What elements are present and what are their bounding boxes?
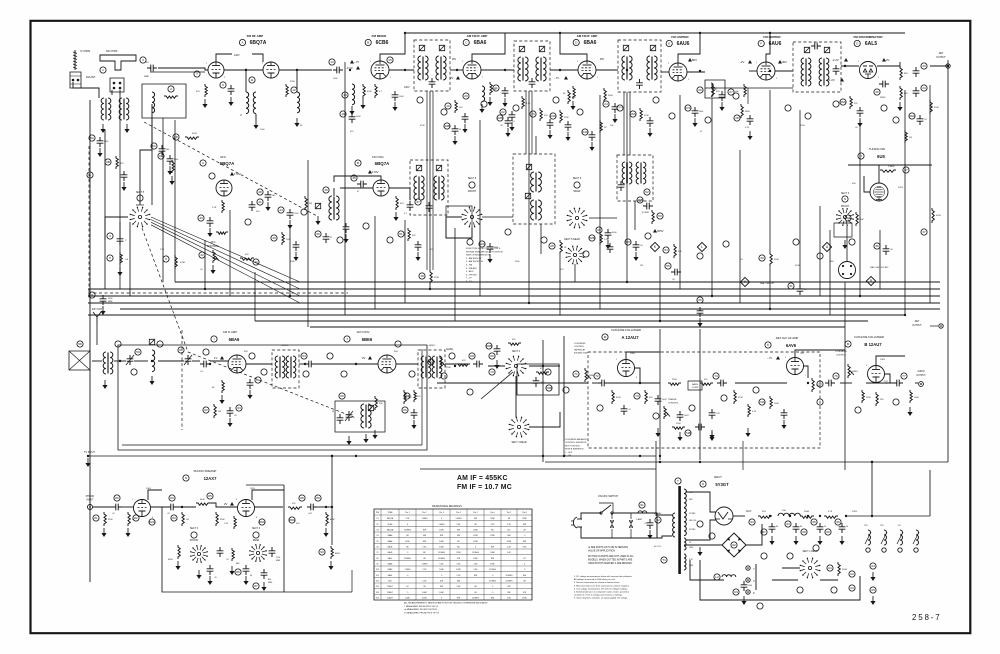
capacitor IF2 bypass 470MMF <box>612 103 619 113</box>
svg-text:800: 800 <box>268 579 271 581</box>
wire det output right bus <box>947 60 949 462</box>
svg-text:100K: 100K <box>290 261 295 263</box>
svg-text:6BA6: 6BA6 <box>229 337 240 342</box>
svg-text:93: 93 <box>750 520 754 524</box>
svg-text:DET: DET <box>939 53 944 55</box>
tube V9 6BA6 AM IF <box>228 355 246 373</box>
ref circles level area <box>489 353 495 359</box>
tube V5 6AU6 limiter 1 <box>669 63 687 81</box>
svg-text:S: S <box>844 197 846 201</box>
resistor tone ladder 3 <box>734 390 736 404</box>
resistor IF1 screen <box>522 96 524 109</box>
svg-text:2. Socket connections are sho: 2. Socket connections are shown as botto… <box>574 581 620 584</box>
svg-text:97: 97 <box>762 530 766 534</box>
svg-text:91: 91 <box>640 503 644 507</box>
svg-text:AUDIO: AUDIO <box>917 370 924 373</box>
coil RF plate choke L4 <box>253 92 256 114</box>
svg-text:4.7K: 4.7K <box>828 511 833 513</box>
svg-text:6. Values beyond a variation,: 6. Values beyond a variation, no signal … <box>574 597 628 600</box>
svg-text:VALUE OR APPLICATION: VALUE OR APPLICATION <box>588 549 615 552</box>
shield box FM RF coil <box>142 84 186 118</box>
svg-text:69B: 69B <box>486 344 492 348</box>
resistor 470K left <box>175 255 177 269</box>
svg-text:Pin 4: Pin 4 <box>456 512 460 514</box>
svg-text:470K: 470K <box>490 564 495 566</box>
svg-text:6 - PHONO: 6 - PHONO <box>466 274 477 276</box>
pilot lamp choke <box>714 574 720 580</box>
svg-text:A4: A4 <box>871 564 875 568</box>
svg-text:100K: 100K <box>914 397 919 399</box>
svg-text:.5: .5 <box>407 592 409 594</box>
svg-text:220K: 220K <box>108 519 113 521</box>
svg-text:100K: 100K <box>286 239 291 241</box>
svg-text:90V: 90V <box>244 351 248 353</box>
svg-text:89: 89 <box>316 496 320 500</box>
extra scattered refs power <box>697 521 703 527</box>
extra scattered refs am row <box>115 341 121 347</box>
resistor mid under afc <box>305 196 307 210</box>
wire RF out to mixer cluster <box>279 69 332 71</box>
svg-text:81: 81 <box>94 516 98 520</box>
capacitor limiter bypass <box>747 115 754 125</box>
svg-text:2V: 2V <box>886 58 890 62</box>
svg-text:3. Measured values are from s: 3. Measured values are from socket pin t… <box>574 584 630 587</box>
svg-text:SET POSITION: SET POSITION <box>565 445 580 447</box>
svg-text:-2V: -2V <box>740 60 744 64</box>
svg-text:12AU7: 12AU7 <box>387 591 393 594</box>
capacitor AM coupling <box>200 361 210 368</box>
resistor 47K conv out <box>414 390 416 402</box>
tube V13A 12AX7 phono 1 <box>134 500 151 517</box>
capacitor phono2 eq 800MMF <box>261 569 268 579</box>
capacitor 1.0 mid <box>505 117 512 127</box>
svg-text:80: 80 <box>115 496 119 500</box>
extra parts 6AL5 area <box>850 96 852 109</box>
svg-text:48: 48 <box>258 190 262 194</box>
svg-text:20: 20 <box>464 94 468 98</box>
svg-text:C9: C9 <box>734 590 738 594</box>
svg-text:15 MEG: 15 MEG <box>472 552 479 554</box>
svg-text:47Ω: 47Ω <box>762 511 766 513</box>
svg-text:250Ω: 250Ω <box>842 569 847 571</box>
svg-text:.5: .5 <box>492 592 494 594</box>
extra second-row parts C <box>633 241 640 251</box>
svg-text:49: 49 <box>272 236 276 240</box>
AM IF transformer can <box>272 350 299 388</box>
svg-text:45: 45 <box>459 129 461 131</box>
svg-text:11: 11 <box>250 78 253 82</box>
svg-text:Pin 3: Pin 3 <box>439 512 443 514</box>
power transformer core bar <box>678 486 681 574</box>
coils in wafer box <box>622 162 625 184</box>
svg-text:100K: 100K <box>473 558 478 560</box>
svg-text:55: 55 <box>666 264 670 268</box>
svg-text:5 - AUX: 5 - AUX <box>466 270 474 273</box>
svg-text:REAR: REAR <box>574 190 581 193</box>
svg-text:5. Nominal tolerance on compo: 5. Nominal tolerance on component values… <box>574 591 630 594</box>
svg-text:5000: 5000 <box>699 111 703 113</box>
resistor right of phono <box>331 546 333 559</box>
svg-text:190V: 190V <box>880 359 886 361</box>
svg-text:1M: 1M <box>909 137 912 139</box>
svg-text:15 MEG: 15 MEG <box>489 581 496 583</box>
svg-text:150K: 150K <box>676 423 681 425</box>
svg-text:.0047: .0047 <box>684 415 689 417</box>
svg-text:82K: 82K <box>904 73 908 75</box>
svg-text:0: 0 <box>407 524 408 526</box>
svg-text:DET AVC AF AMP: DET AVC AF AMP <box>776 336 799 340</box>
ref circle RF amp r2 <box>249 77 255 83</box>
extra audio box parts <box>621 405 628 415</box>
svg-text:100K: 100K <box>405 598 410 600</box>
svg-text:470K: 470K <box>934 107 939 109</box>
ratio detector coupling box <box>705 80 725 98</box>
AM osc coil box <box>335 401 385 432</box>
capacitor limiter1 <box>719 91 726 101</box>
svg-text:12AX7: 12AX7 <box>387 597 393 600</box>
svg-text:19B: 19B <box>444 124 450 128</box>
svg-text:62: 62 <box>204 408 208 412</box>
svg-text:Pin 7: Pin 7 <box>507 512 511 514</box>
resistor right col 470K <box>932 208 934 223</box>
voltage arrows limiter2 <box>748 60 752 64</box>
svg-text:470K: 470K <box>473 535 478 537</box>
svg-text:220V: 220V <box>898 187 904 189</box>
wire bus line 7 <box>255 320 868 322</box>
capacitor level out <box>473 361 483 368</box>
wire eye column <box>819 206 821 296</box>
svg-text:37: 37 <box>922 230 926 234</box>
svg-text:0V: 0V <box>362 356 366 360</box>
svg-text:FRONT: FRONT <box>841 206 850 208</box>
bridge diode arrows <box>726 537 741 553</box>
svg-text:AM IF = 455KC: AM IF = 455KC <box>457 475 508 482</box>
svg-text:PHONO PREAMP: PHONO PREAMP <box>194 469 217 473</box>
svg-text:470K: 470K <box>420 125 425 127</box>
tube V10 6BE6 AM converter <box>378 355 396 373</box>
tube V11A 12AU7 cathode follower <box>618 360 635 377</box>
svg-text:FM LIMITER: FM LIMITER <box>763 35 781 39</box>
resistor conv screen <box>404 390 406 404</box>
wire phono bottom rail <box>284 591 352 593</box>
svg-text:95V: 95V <box>600 59 605 61</box>
svg-text:CONTROL: CONTROL <box>836 354 847 356</box>
svg-text:WITH B INSERTED:: WITH B INSERTED: <box>565 449 584 451</box>
capacitor tone 4 <box>709 409 716 419</box>
resistor phono 220K <box>104 512 106 526</box>
svg-text:COMP: COMP <box>692 387 699 389</box>
mechanical link line switch <box>481 372 513 399</box>
trimmer caps T6 <box>804 47 809 52</box>
svg-text:60 CYC: 60 CYC <box>654 546 662 548</box>
voltage arrow 170V AFC <box>230 172 234 176</box>
wire sect1 links <box>755 564 757 590</box>
resistor IF2 cathode 68 <box>573 86 575 99</box>
extra parts right det col <box>917 115 924 125</box>
tube V3 6BA6 IF amp 1 <box>463 61 481 79</box>
svg-text:★ SEE PARTS LIST FOR ALTERNATE: ★ SEE PARTS LIST FOR ALTERNATE <box>588 546 628 549</box>
svg-text:117VAC: 117VAC <box>654 512 662 515</box>
svg-text:470K: 470K <box>405 541 410 543</box>
svg-text:61: 61 <box>256 378 260 382</box>
svg-text:6BQ7A: 6BQ7A <box>250 40 267 46</box>
svg-text:.5: .5 <box>407 552 409 554</box>
svg-text:220K: 220K <box>564 117 569 119</box>
svg-text:6CB6: 6CB6 <box>376 40 389 46</box>
svg-text:V3: V3 <box>376 530 378 532</box>
svg-text:SECT 6: SECT 6 <box>573 177 582 180</box>
switch fan-out wires to bus <box>151 217 300 282</box>
svg-text:40: 40 <box>199 216 203 220</box>
capacitor phono in .02 <box>112 504 122 511</box>
extra scattered ref circles audio <box>441 373 447 379</box>
wire audio bottom rails <box>420 468 656 470</box>
resistor discriminator load 1 <box>900 66 902 80</box>
svg-text:24: 24 <box>604 102 608 106</box>
resistor limiter screen 485K <box>741 104 743 118</box>
svg-text:F: F <box>760 42 762 46</box>
svg-text:100K: 100K <box>422 592 427 594</box>
svg-text:L: L <box>701 245 703 249</box>
svg-text:.05: .05 <box>640 245 643 247</box>
svg-text:CONTROL: CONTROL <box>668 402 679 404</box>
wire AM row links <box>92 360 102 362</box>
resistor mixer inj 4.7K <box>375 84 377 98</box>
resistor limiter2 grid 10K <box>744 84 746 97</box>
extra parts right of limiter1 <box>692 107 699 117</box>
svg-text:.05: .05 <box>214 577 217 579</box>
trimmer caps T4 FM IF 2 <box>519 46 524 51</box>
svg-text:CATHODE FOLLOWER: CATHODE FOLLOWER <box>611 328 641 332</box>
svg-text:5000: 5000 <box>494 247 498 249</box>
resistor cf2 out <box>910 390 912 403</box>
svg-text:120V: 120V <box>404 86 410 89</box>
svg-text:3: 3 <box>142 58 144 62</box>
svg-text:AM FM IF AMP: AM FM IF AMP <box>467 34 488 38</box>
capacitor AFC 1 <box>249 201 256 211</box>
svg-text:52C: 52C <box>625 240 631 244</box>
refs power right <box>849 571 855 577</box>
svg-text:99: 99 <box>826 530 830 534</box>
wire audio verticals <box>626 352 660 360</box>
capacitor RF bypass <box>228 85 235 95</box>
svg-text:M: M <box>847 342 850 346</box>
extra parts under IF strip cluster 2 <box>540 108 542 121</box>
svg-text:T1: T1 <box>662 558 666 562</box>
svg-text:-.7V: -.7V <box>354 60 359 64</box>
capacitor inside T5 FM IF 3 <box>636 79 643 89</box>
svg-text:6BQ7A: 6BQ7A <box>387 529 394 532</box>
resistor phono grid <box>128 512 130 526</box>
coil RF output L5 <box>297 92 300 113</box>
resistor AM IF cathode <box>222 380 224 393</box>
capacitor IF1 screen bypass <box>509 111 516 121</box>
svg-text:A5: A5 <box>871 588 875 592</box>
svg-text:6U5: 6U5 <box>388 581 391 583</box>
svg-text:6: 6 <box>636 377 637 379</box>
extra scattered ref circles row1 <box>417 97 423 103</box>
filter cap C90D <box>839 523 846 533</box>
svg-text:47K: 47K <box>400 203 404 205</box>
wire limiter2 links <box>749 70 757 72</box>
svg-text:33: 33 <box>922 64 926 68</box>
svg-text:58: 58 <box>78 342 82 346</box>
svg-text:L2: L2 <box>715 575 719 579</box>
svg-text:86A: 86A <box>259 520 265 524</box>
svg-text:All voltages measured at 1000: All voltages measured at 1000 ohms per v… <box>574 578 615 581</box>
bus junction dots <box>204 288 206 290</box>
svg-text:2: 2 <box>170 87 172 91</box>
resistor AFC 47K <box>240 258 254 260</box>
svg-text:23A: 23A <box>550 114 556 118</box>
trimmer caps T3 FM IF 1 <box>419 45 424 50</box>
svg-text:1M: 1M <box>186 519 189 521</box>
svg-text:3 - FM: 3 - FM <box>466 265 472 267</box>
voltage arrow -7V <box>350 60 354 64</box>
svg-text:† MEASURED FROM PIN 3 OF V2: † MEASURED FROM PIN 3 OF V2 <box>404 605 439 608</box>
svg-text:10K: 10K <box>860 219 864 221</box>
wire coil to RF amp grid <box>158 68 208 70</box>
svg-text:25: 25 <box>550 244 554 248</box>
svg-text:10 MEG: 10 MEG <box>506 581 513 583</box>
svg-text:16: 16 <box>341 112 345 116</box>
wire sect6 front leads <box>446 217 472 238</box>
svg-text:470K: 470K <box>434 277 439 279</box>
svg-text:I: I <box>214 337 215 341</box>
extra top strip horizontals <box>150 71 205 73</box>
capacitor coupling to mixer <box>333 67 343 74</box>
svg-text:OUTPUT: OUTPUT <box>916 375 926 377</box>
svg-text:47K: 47K <box>462 360 466 362</box>
tube V8 6U5 tuning eye <box>870 183 888 201</box>
svg-text:10 MEG: 10 MEG <box>438 558 445 560</box>
capacitor 6AV6 out <box>825 380 835 387</box>
transformer AM antenna <box>103 352 106 374</box>
wire primary leads <box>650 513 672 515</box>
svg-text:66: 66 <box>403 408 407 412</box>
AC plug <box>573 517 577 528</box>
resistor phono out 47K <box>288 507 302 509</box>
svg-text:2.2M: 2.2M <box>604 239 609 241</box>
resistor phono load 1MEG <box>182 512 184 526</box>
svg-text:1 MEG: 1 MEG <box>439 524 445 526</box>
resistor phono 390K <box>216 512 218 526</box>
svg-text:V6: V6 <box>376 547 378 549</box>
svg-text:12AU7: 12AU7 <box>387 585 393 588</box>
svg-text:220K: 220K <box>672 379 677 381</box>
extra scattered ref circles row2 <box>209 173 215 179</box>
svg-text:72: 72 <box>595 374 599 378</box>
svg-text:SECT 3: SECT 3 <box>190 528 199 530</box>
svg-text:42: 42 <box>200 253 204 257</box>
svg-text:TREBLE: TREBLE <box>668 399 677 401</box>
svg-text:92: 92 <box>732 543 736 547</box>
svg-text:22B: 22B <box>497 116 503 120</box>
terminal audio output <box>919 382 924 387</box>
extra parts limiter drop cluster <box>600 120 602 133</box>
capacitor discriminator 1 <box>913 67 920 77</box>
svg-text:2V: 2V <box>450 76 454 80</box>
coil IF1 cathode <box>482 86 485 102</box>
wire audio main line <box>437 382 588 384</box>
connector diamond M <box>740 277 749 286</box>
resistor 250 ohm hum <box>838 562 840 576</box>
labels 6AV6 <box>776 356 780 360</box>
svg-text:1M: 1M <box>218 411 221 413</box>
svg-text:15 MEG: 15 MEG <box>489 569 496 571</box>
svg-text:PHONO: PHONO <box>190 540 199 542</box>
svg-text:1.2K: 1.2K <box>224 523 229 525</box>
svg-text:98: 98 <box>802 530 806 534</box>
svg-text:74B: 74B <box>685 431 691 435</box>
svg-text:68: 68 <box>508 518 510 520</box>
svg-text:68: 68 <box>423 558 425 560</box>
resistor IF2 grid 560K <box>604 88 606 102</box>
extra left tuner parts 2 <box>116 156 118 169</box>
svg-text:V1: V1 <box>376 518 378 520</box>
svg-text:Pin 2: Pin 2 <box>422 512 426 514</box>
svg-text:47K: 47K <box>716 91 720 93</box>
svg-text:68: 68 <box>474 592 476 594</box>
svg-text:V15: V15 <box>376 598 379 600</box>
wire B+ distribution <box>846 515 930 517</box>
AM loop antenna <box>69 351 90 370</box>
wire IF1 links <box>450 69 463 71</box>
dashed gang line FM tuner <box>142 228 356 418</box>
tube V13B 12AX7 phono 2 <box>238 500 255 517</box>
tube V2 FM mixer 6CB6 <box>371 61 389 79</box>
svg-text:AM CONV: AM CONV <box>356 330 369 334</box>
svg-text:0: 0 <box>441 598 442 600</box>
svg-text:2 MEG: 2 MEG <box>888 166 895 168</box>
power transformer 6.3V winding <box>684 554 686 570</box>
svg-text:6BQ7A: 6BQ7A <box>387 517 394 520</box>
svg-text:FM DISCRIMINATOR: FM DISCRIMINATOR <box>853 35 883 39</box>
svg-text:.0047: .0047 <box>662 399 667 401</box>
svg-text:MODELS. WHEN DOTTED IN PARTS: MODELS. WHEN DOTTED IN PARTS ARE <box>588 558 633 561</box>
svg-text:47: 47 <box>416 200 420 204</box>
svg-text:LEVEL: LEVEL <box>446 348 454 351</box>
svg-text:220K: 220K <box>456 552 461 554</box>
svg-text:53: 53 <box>658 214 662 218</box>
svg-text:1: 1 <box>616 359 617 361</box>
svg-text:220K: 220K <box>490 518 495 520</box>
svg-text:34: 34 <box>922 86 926 90</box>
wire tuner verticals extra <box>104 130 106 289</box>
coil FM osc tank <box>329 196 332 220</box>
svg-text:6AU6: 6AU6 <box>677 41 690 47</box>
svg-text:1V: 1V <box>214 356 218 360</box>
tube V1B half-triode FM RF amp <box>263 62 279 78</box>
resistor 2 MEG eye grid <box>880 170 896 172</box>
capacitor discriminator 2 <box>913 87 920 97</box>
svg-text:71: 71 <box>574 372 578 376</box>
capacitor under AM IF <box>227 407 234 417</box>
resistor det output 470K <box>930 100 932 114</box>
variable capacitor AM osc gang <box>346 411 353 421</box>
svg-text:26B: 26B <box>637 198 643 202</box>
capacitor phono eq 2 <box>207 565 214 575</box>
coils osc can stacked <box>531 172 534 192</box>
capacitor phono out <box>307 504 317 511</box>
svg-text:500: 500 <box>272 195 275 197</box>
svg-text:V13: V13 <box>376 586 379 588</box>
svg-text:470K: 470K <box>936 215 941 217</box>
svg-text:44: 44 <box>279 208 283 212</box>
voltage arrow 170V osc <box>368 170 372 174</box>
svg-text:88A: 88A <box>289 518 295 522</box>
svg-text:24A: 24A <box>582 130 588 134</box>
